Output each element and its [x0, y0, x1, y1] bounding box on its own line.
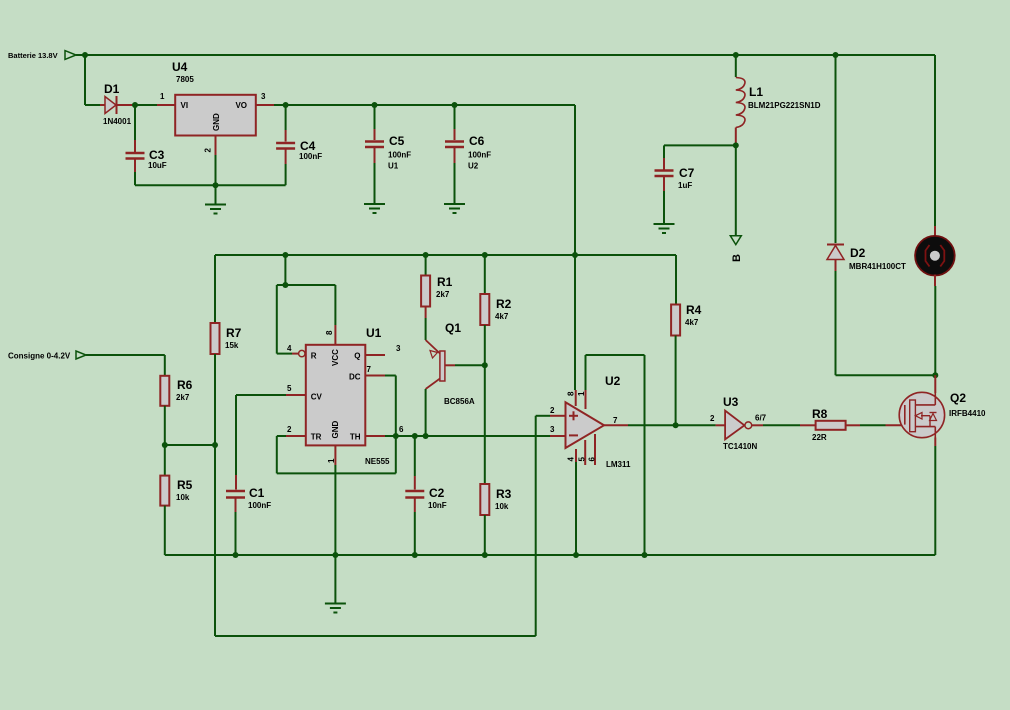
wire consigne to R6	[86, 354, 165, 356]
svg-text:10k: 10k	[495, 502, 509, 511]
svg-text:GND: GND	[212, 113, 221, 131]
wire ground rail	[165, 554, 936, 556]
ground (C5)	[364, 203, 385, 205]
capacitor C7	[663, 145, 665, 158]
capacitor C6	[454, 105, 456, 129]
svg-text:2: 2	[204, 148, 213, 153]
svg-text:R6: R6	[177, 378, 193, 392]
wire motor to drain node	[934, 286, 936, 375]
svg-text:Q2: Q2	[950, 391, 966, 405]
capacitor C4	[285, 105, 287, 130]
svg-text:R1: R1	[437, 275, 453, 289]
wire battery down to D1	[84, 55, 86, 105]
node battery junction	[82, 52, 88, 58]
svg-text:4k7: 4k7	[685, 318, 699, 327]
svg-text:2: 2	[550, 406, 555, 415]
svg-text:100nF: 100nF	[299, 152, 322, 161]
node divider junction	[162, 442, 168, 448]
svg-text:10k: 10k	[176, 493, 190, 502]
svg-text:C6: C6	[469, 134, 485, 148]
svg-text:BLM21PG221SN1D: BLM21PG221SN1D	[748, 101, 821, 110]
svg-text:2: 2	[710, 414, 715, 423]
pin bubble (555 R pin 4)	[299, 350, 305, 356]
node D2 top junction	[833, 52, 839, 58]
svg-text:VI: VI	[181, 101, 189, 110]
svg-text:MBR41H100CT: MBR41H100CT	[849, 262, 906, 271]
svg-text:1N4001: 1N4001	[103, 117, 132, 126]
svg-text:R4: R4	[686, 303, 702, 317]
svg-text:U1: U1	[388, 162, 399, 171]
timer U1 NE555	[306, 345, 366, 446]
transistor Q1 BC856A	[440, 351, 445, 381]
svg-text:7805: 7805	[176, 75, 194, 84]
svg-text:U1: U1	[366, 326, 382, 340]
resistor R2	[484, 255, 486, 294]
svg-text:VCC: VCC	[331, 349, 340, 366]
node TH junction C (Q1 collector)	[423, 433, 429, 439]
node TH junction A	[393, 433, 399, 439]
node C6 top junction	[452, 102, 458, 108]
svg-text:Batterie 13.8V: Batterie 13.8V	[8, 51, 58, 60]
svg-text:8: 8	[567, 391, 576, 396]
pin 3 stub (U2 -)	[550, 435, 566, 437]
node Q1 base junction	[482, 362, 488, 368]
svg-text:C3: C3	[149, 148, 165, 162]
terminal Consigne 0-4.2V	[76, 351, 86, 359]
wire U4 VO to 5V rail	[256, 104, 274, 106]
svg-text:2k7: 2k7	[176, 393, 190, 402]
node D1 cathode junction	[132, 102, 138, 108]
node TH junction B (C2)	[412, 433, 418, 439]
node U4 output junction	[283, 102, 289, 108]
wire VCC branch to 555	[282, 252, 288, 258]
svg-text:TC1410N: TC1410N	[723, 442, 757, 451]
svg-text:4k7: 4k7	[495, 312, 509, 321]
transistor Q2 IRFB4410	[886, 424, 911, 426]
svg-text:GND: GND	[331, 421, 340, 439]
ground (C7)	[654, 223, 675, 225]
wire U4 GND pin down	[215, 136, 217, 156]
svg-text:LM311: LM311	[606, 460, 631, 469]
svg-text:R: R	[311, 352, 317, 361]
svg-text:U3: U3	[723, 395, 739, 409]
svg-text:7: 7	[367, 365, 372, 374]
wire D1 to U4 VI	[135, 104, 157, 106]
pin 8 stub (U2 V+)	[575, 390, 577, 406]
svg-text:L1: L1	[749, 85, 763, 99]
pin 7 wire (555 DC)	[365, 375, 385, 377]
wire D2 anode down to drain node	[835, 271, 837, 375]
svg-text:10nF: 10nF	[428, 501, 447, 510]
svg-text:2k7: 2k7	[436, 290, 450, 299]
node 5V column junction	[572, 252, 578, 258]
svg-text:IRFB4410: IRFB4410	[949, 409, 986, 418]
svg-text:U4: U4	[172, 60, 188, 74]
svg-text:3: 3	[261, 92, 266, 101]
svg-text:3: 3	[550, 425, 555, 434]
pin 4 wire (U2)	[575, 449, 577, 462]
pin 5 stub (U2)	[584, 440, 586, 465]
wire regulator ground bus	[135, 184, 286, 186]
svg-text:2: 2	[287, 425, 292, 434]
wire Q2 drain	[934, 375, 936, 393]
svg-text:BC856A: BC856A	[444, 397, 475, 406]
node L1 top junction	[733, 52, 739, 58]
wire R7 column down to U2 +input loop	[214, 445, 216, 636]
pin 6 stub (U2)	[594, 434, 596, 465]
ground (regulator)	[215, 185, 217, 204]
svg-text:D2: D2	[850, 246, 866, 260]
svg-text:R5: R5	[177, 478, 193, 492]
svg-text:1uF: 1uF	[678, 181, 692, 190]
svg-text:R7: R7	[226, 326, 242, 340]
svg-text:6/7: 6/7	[755, 414, 767, 423]
svg-text:R3: R3	[496, 487, 512, 501]
svg-text:NE555: NE555	[365, 457, 390, 466]
svg-text:8: 8	[325, 330, 334, 335]
pin 3 stub (555 Q)	[365, 354, 385, 356]
capacitor C3	[134, 105, 136, 140]
terminal B	[730, 236, 741, 245]
node C1 ground junction	[233, 552, 239, 558]
node L1 bottom junction	[733, 142, 739, 148]
resistor R8	[800, 424, 816, 426]
svg-text:VO: VO	[235, 101, 247, 110]
wire 5V rail	[286, 104, 575, 106]
svg-text:4: 4	[567, 457, 576, 462]
regulator U4 7805	[175, 95, 256, 136]
terminal Batterie 13.8V	[65, 51, 76, 60]
svg-text:15k: 15k	[225, 341, 239, 350]
svg-text:U2: U2	[605, 374, 621, 388]
node regulator ground junction	[213, 182, 219, 188]
ground (main)	[334, 555, 336, 603]
svg-text:1: 1	[160, 92, 165, 101]
node comparator output junction	[673, 422, 679, 428]
svg-text:Q1: Q1	[445, 321, 461, 335]
svg-text:5: 5	[287, 384, 292, 393]
pin 7 wire (U2 out)	[604, 424, 628, 426]
svg-text:6: 6	[588, 457, 597, 462]
node 555 VCC junction	[282, 282, 288, 288]
svg-text:DC: DC	[349, 373, 361, 382]
wire VCC mid rail	[215, 254, 676, 256]
svg-text:D1: D1	[104, 82, 120, 96]
svg-text:TH: TH	[350, 433, 361, 442]
svg-text:100nF: 100nF	[248, 501, 271, 510]
wire 5V rail down to LM311 pin8	[574, 105, 576, 255]
svg-text:5: 5	[578, 457, 587, 462]
resistor R3	[484, 365, 486, 484]
svg-text:10uF: 10uF	[148, 161, 167, 170]
comparator U2 LM311	[566, 402, 605, 448]
wire top rail corner down to motor	[934, 55, 936, 226]
svg-text:4: 4	[287, 344, 292, 353]
svg-text:CV: CV	[311, 393, 323, 402]
pin 1 wire (555 GND)	[334, 445, 336, 465]
wire divider to R7 column	[165, 444, 215, 446]
pin 2 wire (555 TR)	[286, 435, 306, 437]
wire top rail	[85, 54, 935, 56]
svg-text:TR: TR	[311, 433, 322, 442]
svg-text:Consigne 0-4.2V: Consigne 0-4.2V	[8, 352, 71, 361]
svg-text:C5: C5	[389, 134, 405, 148]
node R1 top junction	[423, 252, 429, 258]
svg-text:C7: C7	[679, 166, 695, 180]
wire Q1 collector down	[425, 389, 427, 436]
svg-text:R8: R8	[812, 407, 828, 421]
node U2 pin1 ground junction	[642, 552, 648, 558]
wire battery to top rail	[76, 54, 85, 56]
inductor L1	[735, 55, 737, 77]
wire U3 to R8	[763, 424, 800, 426]
pin 2 stub (U2 +)	[550, 415, 566, 417]
svg-text:22R: 22R	[812, 433, 827, 442]
ground (C6)	[444, 203, 465, 205]
node R3 ground junction	[482, 552, 488, 558]
driver U3 TC1410N	[716, 424, 726, 426]
motor	[934, 226, 936, 237]
svg-text:3: 3	[396, 344, 401, 353]
wire 555 VCC and reset	[277, 284, 336, 286]
svg-text:C2: C2	[429, 486, 445, 500]
pin 5 wire (555 CV)	[286, 394, 306, 396]
pin 1 wire (U2 GND)	[585, 390, 587, 409]
svg-text:1: 1	[327, 458, 336, 463]
resistor R5	[164, 445, 166, 476]
node Q2 drain junction	[932, 372, 938, 378]
resistor R1	[425, 255, 427, 276]
diode D2	[835, 55, 837, 243]
node R2 top junction	[482, 252, 488, 258]
svg-text:6: 6	[399, 425, 404, 434]
resistor R4	[675, 255, 677, 305]
svg-text:C4: C4	[300, 139, 316, 153]
wire L1 junction down to terminal B	[735, 145, 737, 235]
svg-text:7: 7	[613, 416, 618, 425]
diode D1	[100, 104, 105, 106]
svg-text:C1: C1	[249, 486, 265, 500]
svg-text:100nF: 100nF	[388, 151, 411, 160]
capacitor C2	[414, 436, 416, 476]
svg-text:Q: Q	[354, 352, 360, 361]
resistor R7	[214, 255, 216, 323]
capacitor C5	[374, 105, 376, 129]
pin 6 wire (555 TH)	[365, 435, 385, 437]
svg-text:100nF: 100nF	[468, 151, 491, 160]
capacitor C1	[235, 475, 237, 490]
node C5 top junction	[372, 102, 378, 108]
wire L1 junction to C7	[664, 144, 736, 146]
svg-text:B: B	[731, 254, 743, 262]
node R7 column junction	[212, 442, 218, 448]
svg-text:1: 1	[577, 391, 586, 396]
resistor R6	[160, 376, 169, 406]
node C2 ground junction	[412, 552, 418, 558]
node U2 pin4 ground junction	[573, 552, 579, 558]
node 555 GND junction	[332, 552, 338, 558]
svg-text:R2: R2	[496, 297, 512, 311]
wire Q2 source	[934, 438, 936, 447]
svg-text:U2: U2	[468, 162, 479, 171]
